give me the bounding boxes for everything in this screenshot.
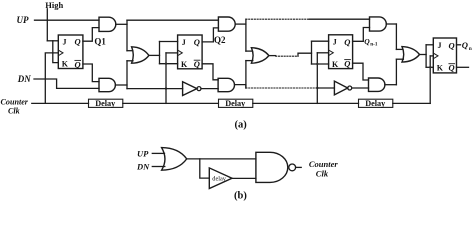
wire Qnbar stub: [457, 66, 469, 68]
svg-text:n: n: [469, 46, 472, 52]
wire DN-b stub: [152, 166, 165, 168]
wire Q3bar out to ANDnb: [353, 63, 369, 80]
wire INV2 out: [352, 87, 369, 89]
wire DN line: [34, 79, 99, 88]
wire ORn out: [420, 54, 427, 56]
wire FF1 clock riser: [45, 53, 58, 104]
svg-text:UP: UP: [17, 15, 29, 25]
svg-text:UP: UP: [137, 148, 149, 158]
wire High vertical: [46, 9, 48, 41]
wire ANDnb out: [385, 84, 397, 86]
wire ORn top riser: [395, 24, 397, 49]
inverter INV1: [183, 82, 201, 96]
wire FFn JK tie: [425, 45, 427, 68]
wire OR2 top stub: [246, 50, 253, 52]
svg-text:delay: delay: [212, 176, 226, 183]
svg-text:Clk: Clk: [8, 107, 20, 116]
delay box D2: [219, 99, 253, 108]
svg-text:High: High: [45, 0, 63, 10]
svg-text:Delay: Delay: [225, 99, 246, 108]
svg-text:K: K: [437, 63, 444, 72]
svg-text:K: K: [332, 60, 339, 69]
flip-flop FF1: [58, 35, 83, 69]
wire chain1 riser: [126, 20, 128, 51]
svg-text:J: J: [438, 41, 442, 50]
svg-text:(a): (a): [235, 120, 248, 131]
junction dot rail2: [316, 87, 318, 89]
wire FFn clock line: [430, 55, 433, 57]
wire FF2 clock riser: [165, 53, 167, 104]
junction dot K2: [165, 63, 167, 65]
wire OR2 out solid2: [298, 53, 312, 56]
wire counter clk rail: [32, 102, 89, 104]
wire delay-b out: [232, 177, 256, 179]
svg-text:(b): (b): [234, 190, 247, 201]
svg-text:Q: Q: [194, 59, 200, 69]
wire Q1bar out to AND1b: [83, 64, 99, 82]
svg-text:Q: Q: [194, 37, 200, 47]
svg-text:DN: DN: [136, 161, 150, 171]
wire chain2 solid to ANDn: [309, 18, 369, 20]
wire AND2 out: [235, 23, 246, 25]
and-gate ANDn: [370, 17, 387, 31]
flip-flop FF3: [329, 35, 353, 69]
wire rail2 solid to INV2: [317, 87, 334, 89]
flip-flop FF2: [178, 35, 203, 69]
or-gate ORn: [402, 47, 420, 63]
svg-text:Q: Q: [344, 37, 350, 47]
svg-text:J: J: [333, 38, 337, 47]
wire Q1 out to AND1: [83, 28, 99, 42]
svg-text:J: J: [63, 37, 67, 46]
buffer delay-b: [209, 168, 232, 189]
svg-text:n-1: n-1: [370, 41, 378, 47]
wire ORn top stub: [396, 48, 403, 50]
wire J2 line: [160, 41, 178, 43]
wire Qn out: [457, 44, 461, 46]
svg-text:Q: Q: [449, 40, 455, 50]
wire Q3 out to ANDn: [353, 28, 370, 42]
and-gate AND2: [218, 17, 235, 31]
junction dot Kn: [429, 66, 431, 68]
wire ORb out to NAND: [187, 158, 256, 160]
wire FF2 clock line: [166, 52, 178, 54]
svg-text:Q: Q: [462, 40, 468, 50]
wire chain2 dashed: [246, 18, 309, 20]
wire J1 feed: [47, 40, 58, 42]
svg-text:Q: Q: [449, 63, 455, 73]
wire OR1 out: [149, 54, 160, 56]
svg-text:Q: Q: [75, 37, 81, 47]
svg-text:Q: Q: [344, 59, 350, 69]
wire K2 line: [160, 63, 178, 65]
wire chain2 riser: [245, 19, 247, 51]
wire OR1 bottom stub: [127, 60, 133, 62]
wire AND1b out: [115, 84, 127, 86]
wire FFn clock riser: [429, 56, 431, 104]
wire OR2 out dashed: [276, 55, 298, 57]
flip-flop FFn: [433, 38, 456, 73]
svg-text:Delay: Delay: [95, 99, 116, 108]
wire delay branch riser: [200, 159, 210, 178]
label Qn: [462, 40, 472, 52]
svg-text:Delay: Delay: [365, 99, 386, 108]
wire ORn bottom riser: [395, 59, 397, 84]
delay box D3: [359, 99, 393, 108]
svg-text:Q2: Q2: [214, 35, 226, 45]
svg-text:Q: Q: [75, 59, 81, 69]
wire NANDb out: [296, 166, 302, 168]
wire FF3 clock line: [317, 52, 328, 54]
wire K1 feed: [53, 41, 59, 63]
wire chain1 top: [127, 19, 218, 21]
wire OR2 bottom riser: [245, 61, 247, 88]
and-gate AND1b: [99, 78, 115, 91]
wire FF2 JK tie: [159, 42, 161, 64]
wire K3 line: [312, 63, 329, 65]
wire ORn bottom stub: [396, 58, 403, 60]
wire J3 line: [312, 40, 329, 42]
svg-text:Clk: Clk: [316, 168, 329, 178]
wire OR2 bottom stub: [246, 60, 253, 62]
svg-text:Counter: Counter: [1, 97, 29, 106]
inverter INV2: [334, 81, 351, 95]
wire OR1 bottom riser: [126, 61, 128, 89]
wire OR2 out solid: [269, 55, 276, 57]
wire FF3 JK tie: [311, 41, 313, 64]
wire rail1 inverter feed: [127, 88, 183, 90]
svg-text:Q: Q: [364, 37, 370, 46]
junction dot rail1: [165, 87, 167, 89]
svg-text:Q1: Q1: [94, 36, 106, 46]
wire ANDn out: [386, 23, 396, 25]
wire Q2bar out to AND2b: [202, 64, 218, 80]
and-gate ANDnb: [369, 78, 385, 91]
nand-gate NANDb: [256, 152, 296, 182]
and-gate AND2b: [218, 78, 234, 91]
wire FF3 clock riser: [316, 53, 318, 104]
wire AND1 out: [116, 23, 127, 25]
or-gate OR1: [132, 47, 149, 63]
wire UP line: [35, 19, 100, 21]
svg-text:DN: DN: [17, 74, 31, 84]
junction dot K3: [316, 63, 318, 65]
or-gate ORb: [162, 148, 187, 171]
svg-text:K: K: [181, 60, 188, 69]
wire Q2 out to AND2: [202, 28, 218, 42]
wire AND2b out: [235, 85, 246, 88]
wire UP-b stub: [152, 152, 164, 154]
and-gate AND1: [99, 17, 116, 31]
wire OR1 top stub: [127, 50, 133, 52]
svg-text:K: K: [62, 59, 69, 68]
wire Kn line: [426, 66, 433, 68]
label Qn-1: [364, 37, 378, 48]
wire Jn line: [426, 44, 433, 46]
delay box D1: [89, 99, 123, 108]
svg-text:J: J: [182, 38, 186, 47]
or-gate OR2: [251, 48, 269, 64]
wire INV1 out: [201, 88, 218, 90]
wire rail2 dashed: [246, 87, 317, 89]
